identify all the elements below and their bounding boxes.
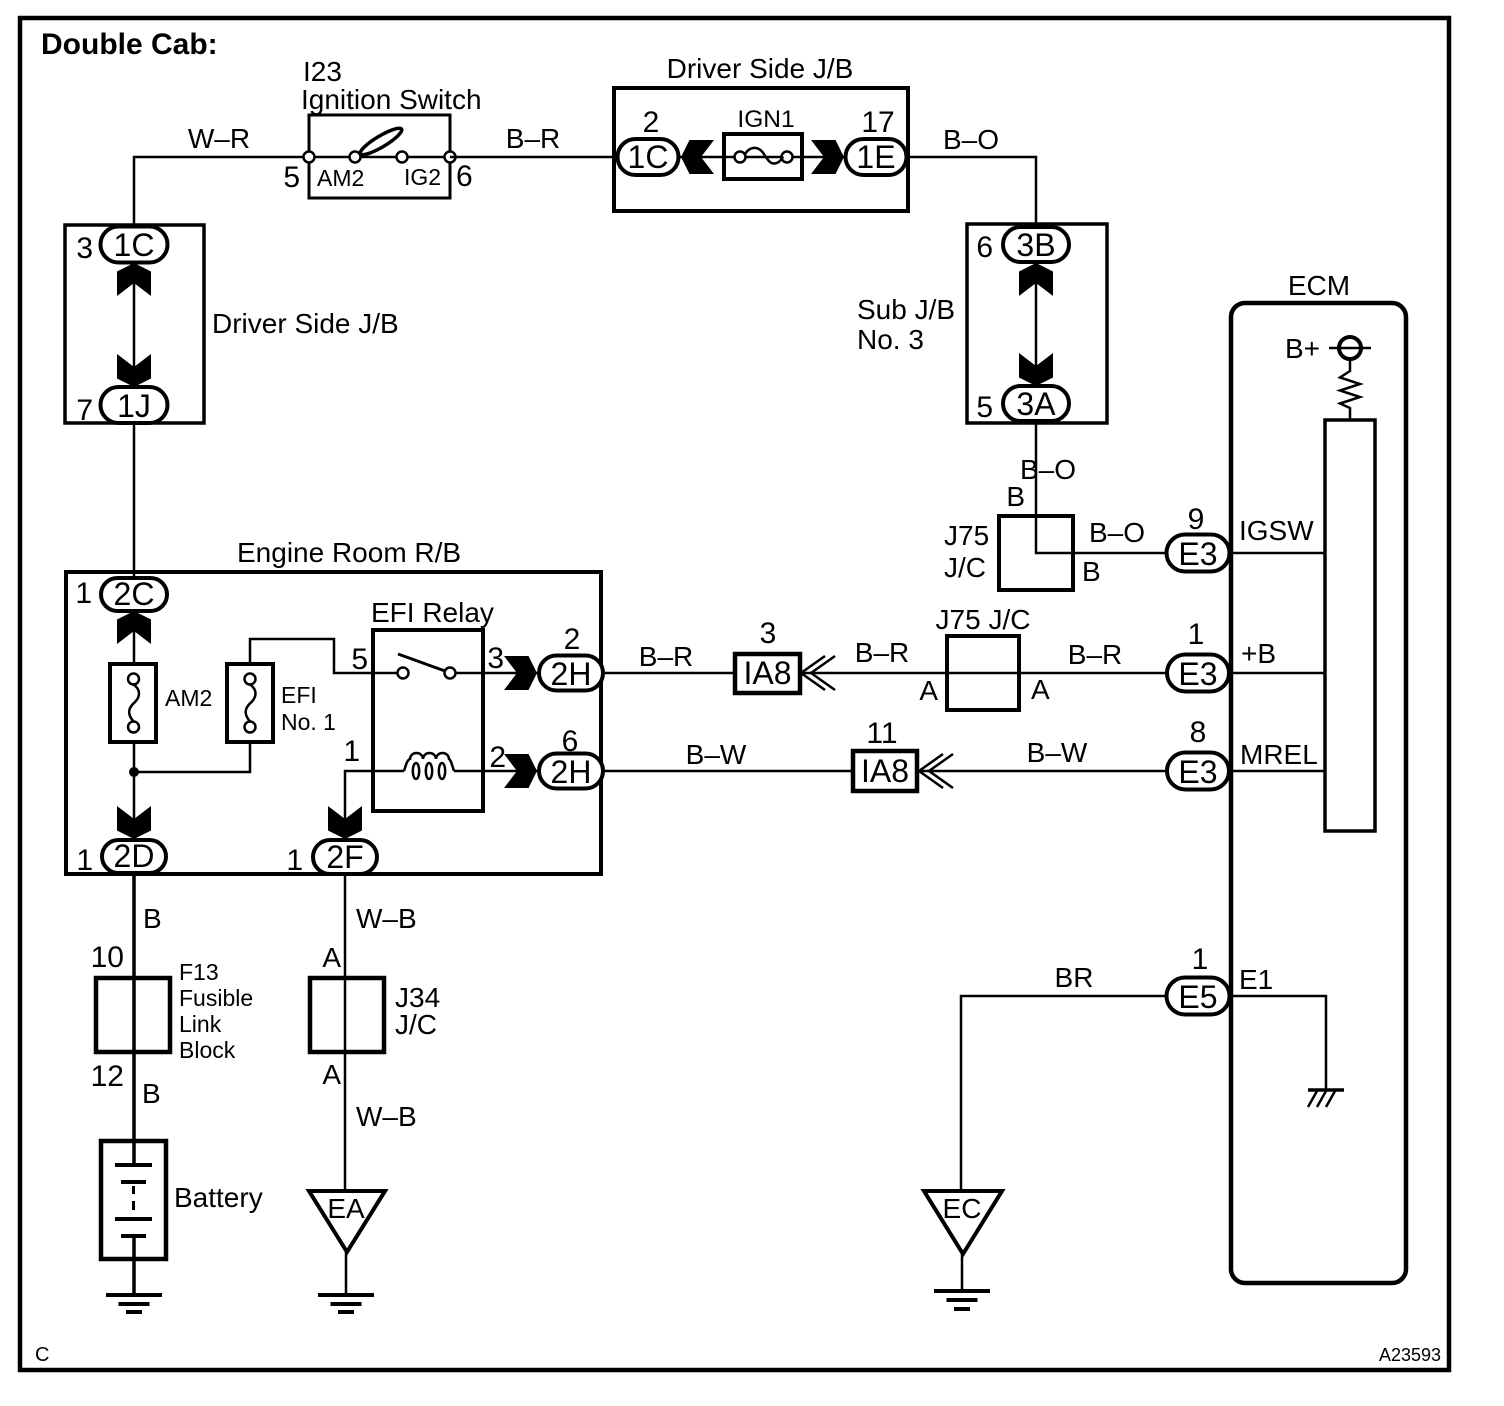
svg-text:2F: 2F xyxy=(326,839,363,875)
connector IA8 (row 1) xyxy=(735,654,800,693)
wire B-W IA8 to E3 pin 8 xyxy=(917,737,1167,771)
svg-text:I23: I23 xyxy=(303,56,342,87)
svg-text:1C: 1C xyxy=(114,227,155,263)
EFI relay xyxy=(371,597,494,811)
svg-text:5: 5 xyxy=(283,161,300,194)
svg-text:1J: 1J xyxy=(117,388,151,424)
wire BR E5 to EC xyxy=(961,962,1167,1191)
svg-text:Fusible: Fusible xyxy=(179,985,253,1011)
wire EA to ground xyxy=(345,1252,348,1295)
svg-text:2: 2 xyxy=(564,623,581,656)
wire B-O (1E to sub J/B 3B) xyxy=(906,124,1036,230)
svg-text:1: 1 xyxy=(1192,943,1209,976)
svg-text:EFI: EFI xyxy=(281,682,317,708)
driver side J/B (left) xyxy=(65,225,399,423)
svg-text:2: 2 xyxy=(643,106,660,139)
wire relay pin1 to 2F xyxy=(345,771,373,840)
svg-text:11: 11 xyxy=(866,717,897,750)
wire W-B J34 to EA xyxy=(345,1052,417,1191)
sub J/B No.3 xyxy=(857,224,1107,423)
arrow into 1C xyxy=(681,140,714,174)
wire relay to 2H xyxy=(483,672,540,675)
battery xyxy=(101,1141,263,1259)
double chevron (row 1) xyxy=(801,656,835,690)
wire battery to ground xyxy=(132,1259,136,1295)
svg-text:EC: EC xyxy=(943,1193,982,1224)
svg-text:Block: Block xyxy=(179,1037,236,1063)
relay coil xyxy=(373,753,483,779)
svg-text:E3: E3 xyxy=(1178,536,1217,572)
wire +B pin to block xyxy=(1231,672,1325,675)
svg-text:No. 3: No. 3 xyxy=(857,324,924,355)
wire B-O (J75 to E3 pin 9) xyxy=(1036,516,1167,553)
svg-text:A23593: A23593 xyxy=(1379,1345,1441,1365)
svg-text:9: 9 xyxy=(1188,503,1205,536)
svg-text:A: A xyxy=(1031,674,1050,705)
svg-text:W–B: W–B xyxy=(356,1101,417,1132)
svg-text:J/C: J/C xyxy=(395,1009,437,1040)
svg-text:E5: E5 xyxy=(1178,979,1217,1015)
wire MREL pin to block xyxy=(1231,770,1325,773)
svg-text:IGSW: IGSW xyxy=(1239,515,1314,546)
svg-text:1C: 1C xyxy=(628,139,669,175)
svg-text:Ignition Switch: Ignition Switch xyxy=(301,84,482,115)
svg-text:AM2: AM2 xyxy=(317,165,364,191)
svg-text:AM2: AM2 xyxy=(165,685,212,711)
ground (EC) xyxy=(934,1291,990,1309)
svg-text:B: B xyxy=(142,1078,161,1109)
arrow into 2H (row 2) xyxy=(504,754,537,788)
svg-text:J75 J/C: J75 J/C xyxy=(936,604,1031,635)
wire through J/B to fuse xyxy=(679,156,846,159)
svg-text:12: 12 xyxy=(91,1060,124,1093)
connector 2C xyxy=(101,576,167,612)
wire E1 to chassis ground xyxy=(1231,996,1326,1089)
svg-text:No. 1: No. 1 xyxy=(281,709,336,735)
svg-text:MREL: MREL xyxy=(1240,739,1318,770)
wire EC to ground xyxy=(961,1254,964,1291)
svg-text:5: 5 xyxy=(351,643,368,676)
svg-text:3A: 3A xyxy=(1016,386,1056,422)
svg-text:A: A xyxy=(322,1059,341,1090)
svg-text:10: 10 xyxy=(91,941,124,974)
wire W-R (node to ignition switch AM2) xyxy=(134,123,309,230)
svg-text:EFI Relay: EFI Relay xyxy=(371,597,494,628)
wire W-B 2F to J34 xyxy=(345,874,417,978)
B+ terminal xyxy=(1285,333,1371,364)
driver side J/B (upper right) xyxy=(614,53,908,211)
connector 1C (driver side J/B) xyxy=(618,139,679,175)
connector 1C (left J/B) xyxy=(101,227,168,264)
svg-text:3B: 3B xyxy=(1016,227,1055,263)
connector 1J xyxy=(101,387,168,424)
svg-text:8: 8 xyxy=(1190,716,1207,749)
internal wire left J/B xyxy=(133,262,136,388)
arrow down (to 2D) xyxy=(117,806,151,839)
fuse EFI No.1 xyxy=(227,664,336,742)
svg-text:C: C xyxy=(35,1344,49,1366)
arrow up (to 2C) xyxy=(117,611,151,644)
ground (EA) xyxy=(318,1295,374,1312)
fusible link block F13 xyxy=(96,959,253,1063)
svg-text:B–W: B–W xyxy=(1027,737,1088,768)
wire B-O (3A to J75 J/C) xyxy=(1020,421,1076,517)
svg-text:ECM: ECM xyxy=(1288,270,1350,301)
svg-text:W–R: W–R xyxy=(188,123,250,154)
svg-text:5: 5 xyxy=(976,391,993,424)
svg-text:1: 1 xyxy=(1188,618,1205,651)
svg-text:J75: J75 xyxy=(944,520,989,551)
svg-text:2D: 2D xyxy=(114,838,155,874)
internal wire sub J/B xyxy=(1035,262,1038,387)
svg-text:B–O: B–O xyxy=(1020,454,1076,485)
wire AM2 fuse to 2D xyxy=(133,742,136,840)
svg-text:A: A xyxy=(919,675,938,706)
wire B-R IA8 to J75 xyxy=(800,637,947,673)
connector 2H (row 1) xyxy=(539,656,603,693)
junction J75 J/C (lower) xyxy=(936,604,1031,710)
svg-text:B+: B+ xyxy=(1285,333,1320,364)
wire B-R (IG2 to driver side J/B) xyxy=(450,123,614,157)
junction node xyxy=(129,767,139,777)
svg-text:2C: 2C xyxy=(114,576,155,612)
svg-text:IA8: IA8 xyxy=(743,655,791,691)
svg-text:B–O: B–O xyxy=(943,124,999,155)
svg-text:1: 1 xyxy=(76,844,93,877)
svg-text:E3: E3 xyxy=(1178,656,1217,692)
relay switch contacts xyxy=(373,654,483,679)
svg-text:Sub J/B: Sub J/B xyxy=(857,294,955,325)
wire B 2D to F13 xyxy=(134,874,162,1141)
svg-text:Battery: Battery xyxy=(174,1182,263,1213)
svg-text:6: 6 xyxy=(456,160,473,193)
svg-text:Double Cab:: Double Cab: xyxy=(41,28,218,61)
ground (battery) xyxy=(106,1295,162,1312)
svg-text:2H: 2H xyxy=(551,656,592,692)
svg-text:IG2: IG2 xyxy=(404,164,441,190)
svg-text:B–R: B–R xyxy=(506,123,560,154)
arrow into 1E xyxy=(811,140,844,174)
svg-text:E1: E1 xyxy=(1239,964,1273,995)
ECM internal block xyxy=(1325,420,1375,831)
wire B-W 2H to IA8 (row 2) xyxy=(603,739,853,771)
svg-text:B: B xyxy=(1082,556,1101,587)
wire 2C to AM2 fuse xyxy=(133,611,136,664)
svg-text:17: 17 xyxy=(861,106,894,139)
svg-text:B–R: B–R xyxy=(639,641,693,672)
svg-text:7: 7 xyxy=(76,394,93,427)
chassis ground (E1) xyxy=(1308,1090,1344,1107)
svg-text:A: A xyxy=(322,942,341,973)
svg-text:BR: BR xyxy=(1055,962,1094,993)
svg-text:6: 6 xyxy=(976,231,993,264)
connector 3B xyxy=(1003,227,1069,263)
wire junction to EFI fuse bottom xyxy=(134,742,250,772)
svg-text:1: 1 xyxy=(286,844,303,877)
svg-text:J/C: J/C xyxy=(944,552,986,583)
arrow up (to 3B) xyxy=(1019,263,1053,296)
connector E3 pin 1 xyxy=(1167,655,1229,693)
connector IA8 (row 2) xyxy=(853,751,917,791)
fuse IGN1 xyxy=(724,106,802,179)
arrow down (to 1J) xyxy=(117,354,151,387)
svg-text:W–B: W–B xyxy=(356,903,417,934)
wire B-R J75 to E3 pin 1 xyxy=(1019,639,1167,673)
svg-text:B: B xyxy=(1006,481,1025,512)
svg-text:3: 3 xyxy=(76,232,93,265)
svg-text:EA: EA xyxy=(327,1193,365,1224)
engine room R/B xyxy=(66,537,601,874)
connector 2D xyxy=(102,838,166,874)
fuse AM2 xyxy=(110,664,212,742)
svg-text:1E: 1E xyxy=(856,139,895,175)
wire B-R 2H to IA8 xyxy=(603,641,735,673)
connector 3A xyxy=(1003,386,1069,422)
junction J34 J/C xyxy=(310,978,440,1052)
double chevron (row 2) xyxy=(919,754,953,788)
connector E3 pin 9 xyxy=(1167,535,1230,573)
svg-text:IA8: IA8 xyxy=(861,753,909,789)
svg-text:Engine Room R/B: Engine Room R/B xyxy=(237,537,461,568)
svg-text:Driver Side J/B: Driver Side J/B xyxy=(667,53,854,84)
arrow down (to 2F) xyxy=(328,806,362,839)
svg-text:F13: F13 xyxy=(179,959,219,985)
svg-text:2H: 2H xyxy=(551,754,592,790)
svg-text:+B: +B xyxy=(1241,638,1276,669)
connector 2F xyxy=(313,839,377,875)
ground connector EA xyxy=(309,1191,385,1252)
resistor (internal) xyxy=(1340,359,1360,420)
connector 2H (row 2) xyxy=(539,754,603,791)
arrow into 2H (row 1) xyxy=(504,656,537,690)
svg-text:B: B xyxy=(143,903,162,934)
svg-text:Link: Link xyxy=(179,1011,222,1037)
ECM xyxy=(1231,270,1406,1283)
wire IGSW pin to block xyxy=(1231,552,1325,555)
connector 1E xyxy=(846,139,907,175)
svg-text:Driver Side J/B: Driver Side J/B xyxy=(212,308,399,339)
wire 1J to engine room R/B 2C xyxy=(133,423,136,580)
svg-text:3: 3 xyxy=(760,617,777,650)
connector E3 pin 8 xyxy=(1167,753,1229,791)
wire EFI fuse to relay pin 5 xyxy=(250,639,373,673)
arrow down (to 3A) xyxy=(1019,353,1053,386)
junction J75 J/C (upper) xyxy=(944,516,1073,590)
svg-text:1: 1 xyxy=(75,577,92,610)
wire through J75 xyxy=(947,672,1019,675)
connector E5 xyxy=(1167,978,1230,1016)
svg-text:B–R: B–R xyxy=(1068,639,1122,670)
svg-text:B–R: B–R xyxy=(855,637,909,668)
ground connector EC xyxy=(924,1191,1002,1254)
svg-text:B–O: B–O xyxy=(1089,517,1145,548)
svg-text:IGN1: IGN1 xyxy=(737,106,794,133)
arrow up (to 1C) xyxy=(117,263,151,296)
ignition switch I23 xyxy=(283,56,481,198)
svg-text:E3: E3 xyxy=(1178,754,1217,790)
wire coil to 2H row2 xyxy=(483,770,540,773)
svg-text:B–W: B–W xyxy=(686,739,747,770)
svg-text:2: 2 xyxy=(489,741,506,774)
svg-text:1: 1 xyxy=(343,735,360,768)
svg-text:3: 3 xyxy=(487,642,504,675)
